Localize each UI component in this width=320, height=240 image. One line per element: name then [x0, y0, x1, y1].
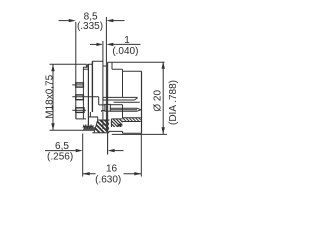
svg-text:(.256): (.256) [47, 152, 73, 163]
svg-text:(DIA .788): (DIA .788) [168, 80, 179, 125]
svg-text:(.335): (.335) [77, 21, 103, 32]
svg-text:(.630): (.630) [95, 175, 121, 186]
svg-text:Ø 20: Ø 20 [152, 90, 163, 112]
svg-text:1: 1 [124, 35, 130, 46]
svg-text:16: 16 [106, 163, 118, 174]
svg-text:(.040): (.040) [112, 46, 138, 57]
svg-text:6,5: 6,5 [55, 141, 69, 152]
svg-text:M18x0,75: M18x0,75 [45, 74, 56, 118]
